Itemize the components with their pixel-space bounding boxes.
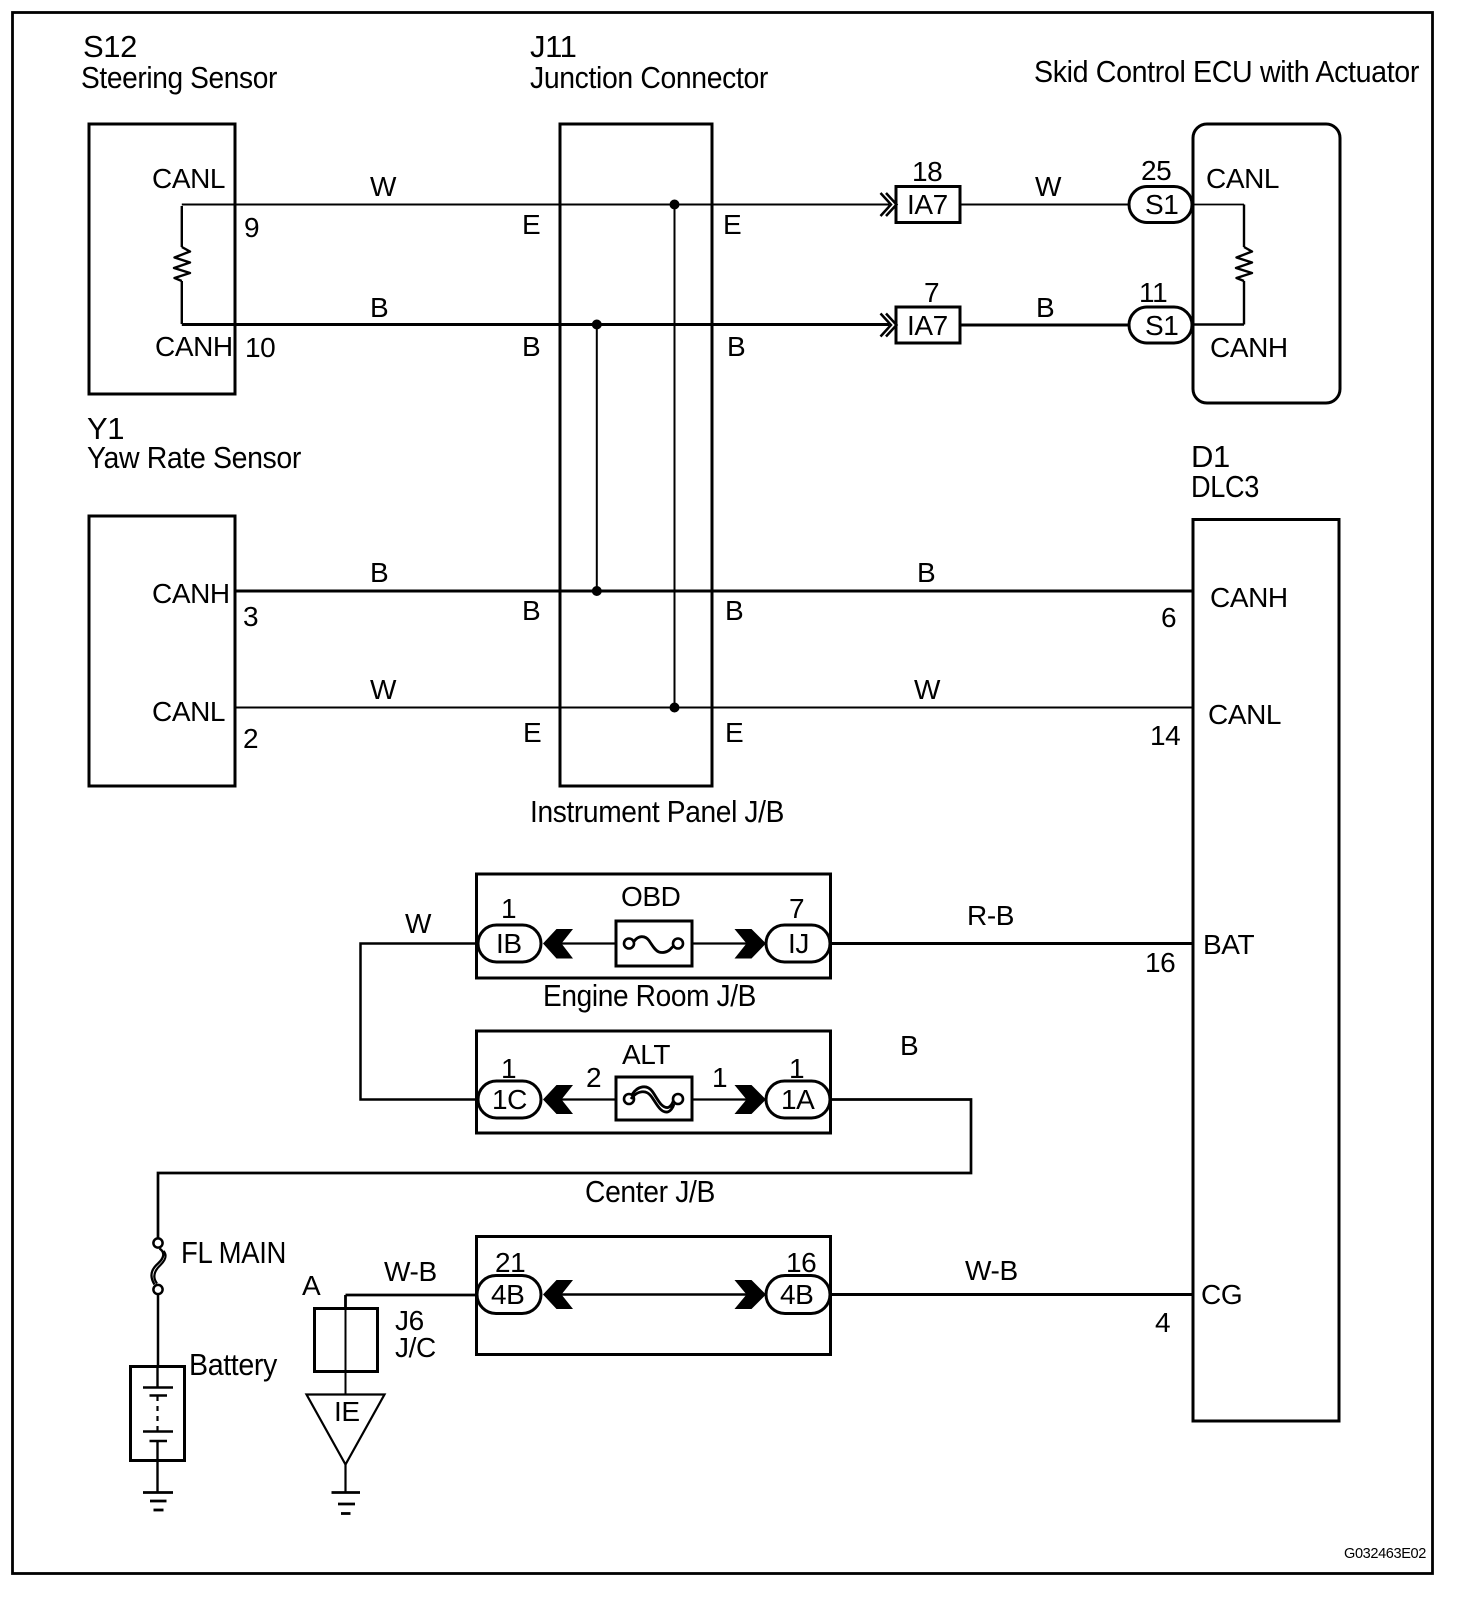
fusible link FL MAIN bbox=[151, 1238, 165, 1294]
svg-text:4B: 4B bbox=[780, 1279, 813, 1310]
svg-text:1: 1 bbox=[712, 1062, 727, 1093]
wire W: S12 CANL to IA7 (row1) bbox=[182, 204, 889, 206]
junction dot (row3 at J11 vertical) bbox=[592, 586, 602, 596]
svg-text:Yaw Rate Sensor: Yaw Rate Sensor bbox=[87, 440, 301, 475]
svg-text:16: 16 bbox=[1145, 947, 1175, 978]
svg-text:7: 7 bbox=[924, 277, 939, 308]
arrow into 4B left bbox=[543, 1280, 573, 1309]
svg-text:W: W bbox=[405, 908, 432, 939]
wire: J11 internal vertical W (E joint) bbox=[674, 205, 676, 708]
svg-text:Battery: Battery bbox=[189, 1347, 278, 1382]
svg-text:DLC3: DLC3 bbox=[1191, 469, 1259, 504]
connector arrow chevron to IA7 (row1) bbox=[881, 193, 897, 216]
svg-text:CANH: CANH bbox=[1210, 332, 1288, 363]
component Skid Control ECU box bbox=[1193, 124, 1340, 403]
wire W-B: 4B to DLC3 CG bbox=[830, 1293, 1193, 1296]
svg-text:1C: 1C bbox=[492, 1084, 527, 1115]
connector 4B (left) bbox=[477, 1276, 541, 1314]
svg-text:4: 4 bbox=[1155, 1307, 1170, 1338]
junction dot (B wire in J11) bbox=[592, 320, 602, 330]
wire W: from IB left down to 1C bbox=[361, 944, 479, 1100]
svg-text:B: B bbox=[917, 557, 935, 588]
wire W: Y1 CANL to DLC3 (row4) bbox=[236, 707, 1193, 709]
svg-text:Junction Connector: Junction Connector bbox=[530, 60, 768, 95]
wire stub CANL inside ECU bbox=[1193, 204, 1244, 206]
svg-text:25: 25 bbox=[1141, 155, 1171, 186]
wire: 4B internal bbox=[562, 1293, 747, 1295]
svg-text:IA7: IA7 bbox=[907, 310, 948, 341]
svg-text:W-B: W-B bbox=[965, 1255, 1018, 1286]
svg-text:7: 7 bbox=[789, 893, 804, 924]
svg-text:CANH: CANH bbox=[1210, 582, 1288, 613]
svg-text:IB: IB bbox=[496, 928, 522, 959]
svg-text:21: 21 bbox=[495, 1247, 525, 1278]
arrow into IJ bbox=[735, 929, 767, 959]
svg-text:S1: S1 bbox=[1145, 189, 1178, 220]
wire B: S12 CANH to IA7 (row2) bbox=[182, 323, 889, 326]
svg-text:CANL: CANL bbox=[152, 696, 225, 727]
connector 1C bbox=[478, 1081, 541, 1118]
component S12 label bbox=[81, 29, 277, 95]
svg-text:G032463E02: G032463E02 bbox=[1344, 1545, 1426, 1562]
svg-text:9: 9 bbox=[244, 212, 259, 243]
svg-text:3: 3 bbox=[243, 601, 258, 632]
wire: 1C arrow to fuse ALT bbox=[562, 1098, 617, 1100]
svg-text:CANH: CANH bbox=[155, 331, 233, 362]
connector IA7 (row1) bbox=[896, 187, 960, 223]
label J6 J/C bbox=[395, 1305, 436, 1363]
svg-text:4B: 4B bbox=[491, 1279, 524, 1310]
wire: fuse ALT to 1A arrow bbox=[692, 1098, 747, 1100]
svg-text:1: 1 bbox=[501, 893, 516, 924]
junction dot (W wire in J11) bbox=[670, 200, 680, 210]
connector S1 (row2) bbox=[1129, 307, 1192, 343]
component Center J/B (ALT) box bbox=[477, 1031, 831, 1133]
fuse ALT (fusible link) bbox=[616, 1077, 692, 1120]
svg-text:Engine Room J/B: Engine Room J/B bbox=[543, 978, 756, 1013]
svg-text:E: E bbox=[725, 717, 743, 748]
svg-text:CANH: CANH bbox=[152, 578, 230, 609]
svg-text:B: B bbox=[370, 292, 388, 323]
ground (battery) bbox=[143, 1493, 173, 1511]
svg-text:FL MAIN: FL MAIN bbox=[181, 1235, 286, 1270]
svg-text:B: B bbox=[900, 1030, 918, 1061]
component D1 DLC3 box bbox=[1193, 520, 1339, 1422]
svg-text:W: W bbox=[1035, 171, 1062, 202]
connector 1A bbox=[766, 1081, 830, 1118]
battery bbox=[131, 1366, 185, 1493]
svg-text:B: B bbox=[522, 595, 540, 626]
arrow into IB bbox=[543, 929, 573, 959]
component J11 label bbox=[530, 29, 768, 95]
svg-text:J/C: J/C bbox=[395, 1332, 436, 1363]
component Engine Room J/B box bbox=[477, 874, 831, 978]
svg-text:6: 6 bbox=[1161, 602, 1176, 633]
wire: fuse OBD to IJ arrow bbox=[692, 942, 747, 944]
svg-text:CANL: CANL bbox=[1206, 163, 1279, 194]
svg-text:B: B bbox=[1036, 292, 1054, 323]
connector IA7 (row2) bbox=[896, 307, 960, 343]
wire through J6 to IE bbox=[345, 1308, 347, 1394]
svg-text:ALT: ALT bbox=[622, 1039, 670, 1070]
svg-text:Skid Control ECU with Actuator: Skid Control ECU with Actuator bbox=[1034, 54, 1419, 89]
wire: IB arrow to fuse OBD bbox=[562, 942, 617, 944]
svg-text:14: 14 bbox=[1150, 720, 1180, 751]
arrow into 1A bbox=[735, 1085, 767, 1114]
component J6 J/C box bbox=[315, 1309, 378, 1372]
svg-text:BAT: BAT bbox=[1203, 929, 1254, 960]
wire: J11 internal vertical B (B joint) bbox=[596, 325, 598, 592]
junction dot (row4 at J11 vertical) bbox=[670, 703, 680, 713]
arrow into 1C bbox=[543, 1085, 573, 1114]
svg-text:W: W bbox=[370, 674, 397, 705]
wire: FL MAIN to battery bbox=[157, 1295, 160, 1367]
wire: IE to ground bbox=[344, 1464, 346, 1493]
svg-text:Steering Sensor: Steering Sensor bbox=[81, 60, 277, 95]
svg-text:B: B bbox=[727, 331, 745, 362]
resistor (ECU terminating) bbox=[1236, 205, 1252, 325]
svg-text:2: 2 bbox=[586, 1062, 601, 1093]
wire W: IA7 to S1 (row1) bbox=[960, 204, 1129, 206]
component Y1 Yaw Rate Sensor box bbox=[89, 516, 235, 786]
svg-text:J11: J11 bbox=[530, 29, 576, 64]
svg-text:Center J/B: Center J/B bbox=[585, 1174, 715, 1209]
wire B: Y1 CANH to DLC3 (row3) bbox=[236, 590, 1193, 593]
svg-text:IA7: IA7 bbox=[907, 189, 948, 220]
connector IJ bbox=[766, 925, 830, 962]
svg-text:S12: S12 bbox=[83, 29, 137, 64]
svg-text:IE: IE bbox=[334, 1396, 360, 1427]
svg-text:E: E bbox=[523, 717, 541, 748]
svg-text:CANL: CANL bbox=[152, 163, 225, 194]
connector IB bbox=[478, 925, 541, 962]
svg-text:CG: CG bbox=[1201, 1279, 1242, 1310]
svg-text:CANL: CANL bbox=[1208, 699, 1281, 730]
svg-text:E: E bbox=[522, 209, 540, 240]
svg-text:W-B: W-B bbox=[384, 1256, 437, 1287]
svg-text:A: A bbox=[302, 1270, 321, 1301]
svg-text:B: B bbox=[725, 595, 743, 626]
svg-text:16: 16 bbox=[786, 1247, 816, 1278]
ground triangle IE bbox=[307, 1395, 385, 1465]
svg-text:1A: 1A bbox=[781, 1084, 815, 1115]
svg-text:18: 18 bbox=[912, 156, 942, 187]
svg-text:B: B bbox=[522, 331, 540, 362]
svg-text:Instrument Panel J/B: Instrument Panel J/B bbox=[530, 794, 784, 829]
wire B: 1A down to battery feed bbox=[158, 1100, 971, 1239]
svg-text:OBD: OBD bbox=[621, 881, 680, 912]
svg-text:R-B: R-B bbox=[967, 900, 1014, 931]
svg-text:10: 10 bbox=[245, 332, 275, 363]
svg-text:1: 1 bbox=[789, 1053, 804, 1084]
svg-text:S1: S1 bbox=[1145, 310, 1178, 341]
svg-text:2: 2 bbox=[243, 723, 258, 754]
svg-text:B: B bbox=[370, 557, 388, 588]
component Center J/B 4B box bbox=[477, 1237, 831, 1355]
svg-text:1: 1 bbox=[501, 1053, 516, 1084]
component D1 DLC3 label bbox=[1191, 439, 1259, 504]
component Y1 label bbox=[87, 411, 301, 475]
resistor (S12 terminating) bbox=[174, 206, 190, 324]
connector 4B (right) bbox=[766, 1276, 830, 1314]
svg-text:E: E bbox=[723, 209, 741, 240]
arrow into 4B right bbox=[735, 1280, 767, 1309]
component S12 Steering Sensor box bbox=[89, 124, 235, 394]
component J11 Junction Connector box bbox=[560, 124, 712, 786]
svg-text:11: 11 bbox=[1139, 277, 1167, 308]
wire stub CANH inside ECU bbox=[1193, 323, 1244, 326]
connector arrow chevron to IA7 (row2) bbox=[881, 314, 897, 337]
svg-text:W: W bbox=[370, 171, 397, 202]
wire B: IA7 to S1 (row2) bbox=[960, 324, 1129, 327]
svg-text:IJ: IJ bbox=[788, 928, 809, 959]
wire W-B: J6 to 4B bbox=[346, 1295, 479, 1308]
connector S1 (row1) bbox=[1129, 187, 1192, 223]
fuse OBD bbox=[616, 921, 692, 966]
svg-text:W: W bbox=[914, 674, 941, 705]
wire R-B: IJ to DLC3 BAT bbox=[830, 942, 1193, 945]
ground (IE) bbox=[332, 1493, 361, 1514]
